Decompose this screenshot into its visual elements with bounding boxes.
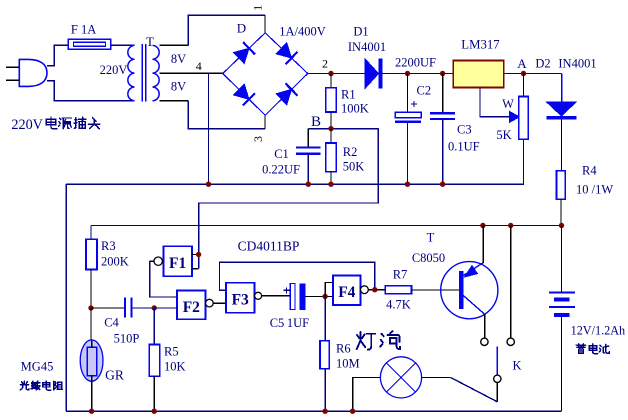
svg-text:R7: R7 bbox=[393, 268, 408, 282]
svg-text:D2: D2 bbox=[535, 57, 550, 71]
resistor R4 bbox=[557, 171, 566, 200]
svg-text:3: 3 bbox=[251, 136, 265, 142]
resistor R6 top lead bbox=[324, 296, 326, 340]
transistor base bar bbox=[459, 271, 463, 309]
svg-text:2: 2 bbox=[322, 57, 328, 71]
svg-text:1UF: 1UF bbox=[287, 316, 309, 330]
gate F2 lower input stub bbox=[154, 307, 177, 309]
switch right lead bbox=[510, 226, 512, 339]
svg-text:T: T bbox=[427, 231, 435, 245]
diode D2 bbox=[547, 102, 576, 116]
resistor R3 bbox=[86, 239, 97, 269]
battery 12V plates bbox=[549, 292, 575, 294]
switch pole lower lead bbox=[496, 383, 498, 403]
svg-text:C8050: C8050 bbox=[412, 251, 445, 265]
node B junction dot bbox=[328, 126, 333, 131]
resistor R1 top lead bbox=[330, 74, 332, 88]
svg-text:1: 1 bbox=[251, 5, 265, 11]
battery bottom lead bbox=[561, 317, 563, 412]
svg-text:C2: C2 bbox=[417, 84, 432, 98]
potentiometer W top lead bbox=[523, 74, 525, 97]
gate F2 bubble bbox=[206, 299, 214, 307]
capacitor C4 left wire bbox=[91, 307, 124, 309]
resistor R3 bottom lead bbox=[90, 270, 92, 309]
wire node B to gate F1 output bbox=[199, 129, 379, 269]
capacitor C2 junction dot bbox=[405, 71, 410, 76]
svg-text:4: 4 bbox=[196, 59, 202, 73]
svg-text:220V: 220V bbox=[100, 63, 128, 77]
gate F2 box bbox=[177, 291, 206, 320]
resistor R5 top lead bbox=[153, 308, 155, 345]
wire LM317 to node A and D2 bbox=[504, 73, 562, 75]
capacitor C3 junction dot bbox=[440, 71, 445, 76]
wire F4 output bbox=[368, 289, 385, 291]
plus-12V net wire bbox=[91, 225, 562, 227]
diode D2 bottom lead bbox=[561, 119, 563, 170]
bottom rail junction dot R5 bbox=[152, 409, 157, 414]
capacitor C5 electrolytic bbox=[290, 284, 295, 310]
capacitor C1 bottom lead bbox=[307, 154, 309, 185]
gate F4 output junction dot bbox=[372, 287, 377, 292]
wire node 3 stub to bridge bbox=[264, 115, 266, 129]
resistor R2 top lead bbox=[330, 129, 332, 143]
regulator LM317 bbox=[453, 60, 504, 87]
svg-text:510P: 510P bbox=[114, 332, 140, 346]
svg-text:R4: R4 bbox=[582, 164, 597, 178]
capacitor C5 plus sign bbox=[284, 287, 290, 293]
wire F1 output to F2 input bbox=[150, 260, 154, 262]
lamp bulb bbox=[380, 357, 421, 398]
svg-text:IN4001: IN4001 bbox=[558, 57, 596, 71]
bridge diode bottom-right bbox=[276, 89, 291, 104]
svg-text:R3: R3 bbox=[101, 239, 116, 253]
wire node 4 down to ground rail bbox=[208, 73, 210, 184]
svg-text:10K: 10K bbox=[164, 360, 186, 374]
gate F1 input junction dot bbox=[196, 252, 201, 257]
svg-text:A: A bbox=[517, 56, 527, 71]
svg-text:8V: 8V bbox=[171, 79, 186, 93]
lamp label bbox=[357, 332, 375, 350]
resistor R1 bbox=[326, 88, 336, 112]
svg-text:10M: 10M bbox=[336, 357, 360, 371]
wire F2 output to F3 bbox=[213, 302, 226, 304]
switch terminal emitter bbox=[481, 338, 488, 345]
bridge diode top-left bbox=[234, 48, 249, 63]
photoresistor GR top lead bbox=[90, 308, 92, 340]
svg-text:K: K bbox=[512, 359, 521, 373]
plug prong top bbox=[6, 66, 19, 68]
rail junction dot C2 bbox=[405, 182, 410, 187]
gate F4 box bbox=[333, 276, 361, 305]
wire node 4 stub to bridge bbox=[209, 72, 223, 74]
resistor R2 bottom lead bbox=[330, 172, 332, 185]
svg-text:R2: R2 bbox=[343, 145, 358, 159]
node C4-right junction dot bbox=[152, 305, 157, 310]
transistor arrow bbox=[465, 266, 478, 277]
gate F4 bubble bbox=[361, 286, 369, 294]
resistor R2 bbox=[326, 143, 336, 172]
resistor R1 bottom lead bbox=[330, 112, 332, 129]
potentiometer W 5K body bbox=[519, 97, 529, 140]
wire F3 output to C5 bbox=[262, 295, 291, 297]
battery top lead bbox=[561, 226, 563, 293]
transformer primary coil 220V bbox=[128, 45, 135, 100]
svg-text:10 /1W: 10 /1W bbox=[576, 183, 613, 197]
plug prong bottom bbox=[6, 79, 19, 81]
svg-text:C1: C1 bbox=[274, 147, 289, 161]
capacitor C2 top lead bbox=[407, 74, 409, 113]
wire bridge to D1 bbox=[308, 73, 365, 75]
secondary tap mid wire bbox=[159, 72, 210, 74]
svg-text:F2: F2 bbox=[183, 299, 200, 316]
electrolytic C2 plus sign bbox=[411, 101, 417, 107]
switch junction dot bbox=[508, 223, 513, 228]
svg-text:GR: GR bbox=[105, 368, 124, 383]
svg-text:LM317: LM317 bbox=[461, 38, 500, 52]
svg-text:100K: 100K bbox=[341, 102, 369, 116]
resistor R4 bottom lead bbox=[560, 199, 562, 225]
capacitor C3 top lead bbox=[442, 74, 444, 113]
wire to F4 upper input bbox=[325, 282, 333, 296]
svg-text:T: T bbox=[146, 34, 154, 49]
bridge diode bottom-left bbox=[234, 84, 249, 99]
capacitor C3 bbox=[430, 112, 455, 114]
transistor T C8050 circle bbox=[441, 262, 498, 319]
svg-text:D1: D1 bbox=[353, 25, 368, 39]
transformer core bbox=[141, 44, 143, 102]
transformer secondary coil bbox=[153, 45, 160, 100]
secondary tap bottom wire bbox=[159, 100, 188, 102]
resistor R6 bbox=[320, 341, 329, 369]
switch lever bbox=[451, 378, 498, 402]
node 2 junction dot bbox=[328, 71, 333, 76]
rail junction dot C1 bbox=[306, 182, 311, 187]
node A junction dot bbox=[521, 71, 526, 76]
resistor R5 bbox=[149, 345, 159, 377]
ground rail mid bbox=[66, 183, 524, 185]
capacitor C4 right wire bbox=[132, 307, 176, 309]
capacitor C1 bbox=[296, 146, 321, 148]
wire plug bottom to transformer primary bbox=[47, 81, 135, 101]
fuse F1 bbox=[68, 39, 111, 49]
wire node 3 riser bbox=[188, 101, 265, 129]
svg-text:C5: C5 bbox=[270, 316, 285, 330]
svg-text:C3: C3 bbox=[457, 123, 472, 137]
svg-text:12V/1.2Ah: 12V/1.2Ah bbox=[571, 324, 626, 338]
rail junction dot bridge bbox=[206, 182, 211, 187]
collector junction dot bbox=[480, 223, 485, 228]
gate F1 box bbox=[163, 246, 192, 276]
gate F3 bubble bbox=[255, 292, 262, 299]
potentiometer W arrow bbox=[509, 111, 519, 122]
bridge diamond bbox=[223, 33, 308, 115]
feedback wire F4 output to F3 input bbox=[220, 262, 375, 290]
svg-text:IN4001: IN4001 bbox=[348, 40, 386, 54]
wire R7 to transistor base bbox=[412, 289, 460, 291]
svg-text:4.7K: 4.7K bbox=[386, 298, 411, 312]
bottom rail junction dot GR bbox=[89, 409, 94, 414]
switch pole stub bbox=[496, 347, 498, 376]
resistor R6 bottom lead bbox=[324, 369, 326, 411]
capacitor C2 bottom lead bbox=[407, 122, 409, 184]
svg-text:R5: R5 bbox=[164, 345, 179, 359]
collector lead bbox=[482, 226, 484, 264]
capacitor C1 top lead bbox=[307, 129, 309, 147]
capacitor C2 electrolytic bbox=[395, 112, 421, 118]
svg-text:CD4011BP: CD4011BP bbox=[238, 239, 300, 254]
svg-text:F1: F1 bbox=[169, 255, 186, 272]
svg-text:F 1A: F 1A bbox=[71, 23, 96, 37]
wire plug top to fuse bbox=[47, 45, 68, 65]
svg-text:R6: R6 bbox=[336, 342, 351, 356]
wire fuse to transformer primary bbox=[111, 44, 135, 46]
svg-text:1A/400V: 1A/400V bbox=[279, 25, 326, 39]
svg-text:0.22UF: 0.22UF bbox=[262, 163, 300, 177]
diode D2 top lead bbox=[561, 74, 563, 103]
plug body (220V mains plug) bbox=[19, 59, 47, 86]
capacitor C4 bbox=[124, 298, 126, 318]
svg-text:D: D bbox=[237, 21, 246, 36]
svg-text:2200UF: 2200UF bbox=[395, 56, 436, 70]
svg-text:8V: 8V bbox=[171, 52, 186, 66]
diode D1 bbox=[365, 59, 379, 89]
svg-text:W: W bbox=[502, 97, 514, 111]
gate F1 input stub lower bbox=[192, 268, 199, 270]
svg-text:B: B bbox=[311, 114, 321, 130]
node C4-left junction dot bbox=[88, 305, 93, 310]
photoresistor GR bottom lead bbox=[91, 381, 93, 411]
node C5-F4 junction dot bbox=[322, 294, 327, 299]
resistor R3 top lead bbox=[90, 226, 92, 240]
LM317 adj pin wire bbox=[480, 87, 510, 117]
svg-text:MG45: MG45 bbox=[21, 360, 54, 374]
switch terminal right bbox=[507, 338, 514, 345]
battery junction dot bbox=[559, 223, 564, 228]
bottom rail junction dot lamp bbox=[350, 409, 355, 414]
potentiometer W bottom lead bbox=[523, 139, 525, 184]
ground rail bottom bbox=[66, 410, 562, 412]
transistor emitter line bbox=[463, 296, 484, 315]
capacitor C3 bottom lead bbox=[442, 119, 444, 184]
svg-text:F4: F4 bbox=[338, 284, 355, 301]
photoresistor GR MG45 bbox=[80, 340, 103, 381]
transistor collector line bbox=[463, 263, 483, 276]
svg-text:5K: 5K bbox=[496, 128, 511, 142]
secondary tap top wire bbox=[159, 44, 188, 46]
svg-text:C4: C4 bbox=[104, 316, 119, 330]
switch pole terminal bbox=[494, 375, 501, 382]
lamp left wire bbox=[353, 377, 381, 411]
svg-text:0.1UF: 0.1UF bbox=[448, 140, 480, 154]
lamp right wire bbox=[422, 376, 451, 378]
bridge diode top-right bbox=[276, 43, 291, 58]
gate F1 input stub upper bbox=[192, 254, 199, 256]
svg-text:220V: 220V bbox=[11, 117, 43, 133]
svg-text:R1: R1 bbox=[341, 88, 356, 102]
svg-text:50K: 50K bbox=[343, 160, 365, 174]
wire D1 to LM317 bbox=[382, 73, 453, 75]
wire node 1 riser bbox=[188, 15, 265, 45]
svg-text:F3: F3 bbox=[232, 292, 249, 309]
rail junction dot R2 bbox=[328, 182, 333, 187]
node B wire bbox=[308, 128, 378, 130]
gate F1 bubble bbox=[154, 257, 162, 265]
svg-text:200K: 200K bbox=[101, 255, 129, 269]
bottom rail junction dot R6 bbox=[322, 409, 327, 414]
emitter lead bbox=[484, 314, 486, 338]
gate F3 box bbox=[226, 283, 255, 313]
resistor R7 bbox=[385, 286, 411, 294]
wire C5 to F4 inputs bbox=[305, 295, 333, 297]
resistor R5 bottom lead bbox=[153, 376, 155, 411]
wire node 1 stub to bridge bbox=[264, 15, 266, 33]
left frame wire bbox=[65, 184, 67, 411]
rail junction dot C3 bbox=[440, 182, 445, 187]
